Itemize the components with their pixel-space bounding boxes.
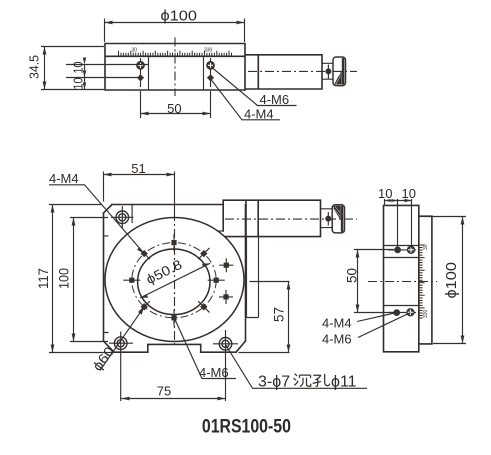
dimension 10 10 right view: [378, 186, 416, 248]
plan counterbore hole bottom-right: [213, 330, 238, 401]
svg-text:01RS100-50: 01RS100-50: [202, 415, 291, 437]
svg-text:ϕ60: ϕ60: [90, 344, 118, 374]
svg-text:10: 10: [378, 186, 392, 201]
dimension phi100 right view: [420, 217, 466, 344]
svg-text:4-M4: 4-M4: [322, 316, 352, 331]
svg-text:50: 50: [345, 268, 360, 283]
svg-text:330: 330: [204, 48, 213, 54]
top view worm housing block: [246, 55, 323, 89]
plan housing centerline: [225, 218, 357, 220]
svg-text:117: 117: [36, 268, 51, 289]
plan inner circle phi50.8: [138, 249, 210, 315]
label 4-M4 top view: [211, 80, 280, 122]
plan shaft ball: [325, 212, 331, 226]
plan housing block: [217, 200, 321, 236]
dimension 50 right view: [345, 250, 395, 313]
dimension phi100 top: [105, 9, 245, 43]
plan corner block lines: [104, 205, 133, 333]
dimension 10 10 left: [66, 58, 148, 90]
right view centerline: [368, 281, 437, 283]
svg-text:330: 330: [423, 309, 429, 318]
svg-text:ϕ100: ϕ100: [161, 9, 198, 25]
top view screw column lines: [141, 58, 211, 87]
svg-text:4-M6: 4-M6: [199, 365, 229, 380]
plan vertical centerline: [174, 172, 176, 346]
top view scale ticks: [119, 48, 232, 57]
plan counterbore hole bottom-left: [109, 332, 133, 402]
svg-text:3-ϕ7: 3-ϕ7: [258, 373, 290, 390]
svg-text:30: 30: [132, 48, 138, 54]
plan counterbore hole top-left: [111, 206, 134, 229]
top view shaft: [322, 63, 333, 79]
svg-text:75: 75: [157, 384, 171, 399]
dimension 75 bottom: [122, 384, 226, 401]
dimension phi60 diagonal: [90, 307, 145, 374]
top view plate outline: [105, 44, 245, 91]
dimension 117 left: [36, 205, 112, 353]
top view vertical centerline: [174, 38, 176, 97]
plan side holes 2x: [219, 258, 233, 304]
dimension 57 right: [239, 282, 291, 353]
label 3-phi7 counterbore: [226, 345, 368, 391]
plan body outline: [104, 205, 246, 353]
top view horizontal centerline: [248, 70, 357, 72]
plan bolt holes 8x: [123, 234, 224, 326]
top view M4 screw right: [207, 74, 214, 81]
svg-text:ϕ11: ϕ11: [331, 373, 357, 390]
plan shaft: [321, 209, 333, 228]
svg-text:51: 51: [131, 161, 145, 176]
right view inner horizontals: [384, 246, 419, 306]
right view scale ticks: [419, 244, 429, 318]
top view knob: [333, 57, 346, 86]
right view screws upper: [388, 246, 416, 254]
label 4-M4 right view: [322, 313, 397, 331]
dimension 50 top view: [141, 91, 211, 118]
svg-text:100: 100: [57, 268, 72, 289]
top view shaft ball: [325, 65, 331, 79]
plan housing side strip: [247, 237, 259, 318]
right view screws lower: [388, 308, 416, 316]
label 4-M6 right view: [322, 313, 410, 347]
right view body outline: [384, 205, 419, 351]
plan knob: [332, 205, 344, 233]
svg-text:34.5: 34.5: [27, 55, 42, 79]
svg-text:50: 50: [167, 101, 181, 116]
top view M6 screw right: [206, 61, 215, 70]
plan bolt circle dash-dot: [132, 243, 216, 318]
svg-text:4-M4: 4-M4: [49, 171, 79, 186]
svg-text:ϕ50.8: ϕ50.8: [144, 257, 185, 287]
svg-text:30: 30: [423, 244, 429, 250]
hanzi chen (sink): [294, 374, 311, 387]
label 4-M6 top view: [212, 68, 297, 108]
top view M4 screw left: [137, 74, 144, 81]
label 4-M4 plan: [49, 171, 144, 254]
svg-text:10: 10: [402, 186, 416, 201]
plan plate circle: [105, 218, 244, 342]
right view plate outline: [419, 216, 432, 344]
svg-text:ϕ100: ϕ100: [444, 262, 460, 299]
svg-text:10: 10: [71, 78, 86, 90]
svg-text:10: 10: [71, 62, 86, 74]
caption 01RS100-50: [202, 415, 291, 437]
dimension 51 plan: [104, 161, 175, 202]
dimension phi50.8 diagonal: [140, 257, 210, 298]
svg-text:4-M4: 4-M4: [244, 106, 274, 121]
label 4-M6 plan: [175, 319, 237, 381]
svg-text:4-M6: 4-M6: [260, 92, 290, 107]
svg-text:57: 57: [272, 307, 287, 322]
hanzi kong (hole): [313, 374, 330, 387]
dimension 34.5 left: [27, 47, 105, 90]
top view inner verticals: [149, 56, 204, 90]
svg-text:4-M6: 4-M6: [322, 332, 352, 347]
top view M6 screw left: [136, 61, 145, 70]
dimension 100 left: [57, 218, 109, 342]
